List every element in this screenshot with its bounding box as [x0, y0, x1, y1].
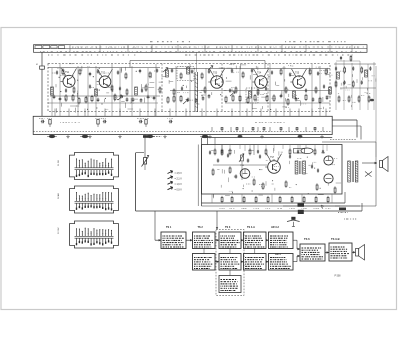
svg-text:TS3: TS3 — [213, 72, 218, 74]
svg-text:= 4,5 V: = 4,5 V — [175, 173, 183, 175]
svg-text:TS5: TS5 — [295, 72, 300, 74]
svg-text:TS 1: TS 1 — [166, 226, 172, 229]
svg-text:TS 3: TS 3 — [225, 226, 231, 229]
svg-text:S1 FM: S1 FM — [58, 160, 60, 166]
svg-text:AR 3-2: AR 3-2 — [271, 226, 280, 229]
svg-text:TS7: TS7 — [270, 157, 275, 159]
svg-text:S3 GW: S3 GW — [58, 227, 60, 234]
svg-text:TS4: TS4 — [257, 72, 262, 74]
svg-text:TS 4-A: TS 4-A — [247, 226, 255, 229]
svg-text:= 0,9 V: = 0,9 V — [175, 189, 183, 191]
svg-text:P 508: P 508 — [335, 276, 342, 278]
svg-text:S2 AM: S2 AM — [57, 193, 60, 199]
svg-text:TS 6: TS 6 — [304, 237, 310, 241]
svg-text:TS1: TS1 — [65, 72, 70, 74]
svg-text:TS2: TS2 — [101, 72, 106, 74]
svg-text:= 2,1 V: = 2,1 V — [175, 179, 183, 181]
svg-text:= 1,6 V: = 1,6 V — [175, 184, 183, 186]
svg-text:TS 3-B: TS 3-B — [331, 237, 340, 241]
svg-text:TS 2: TS 2 — [198, 226, 204, 229]
